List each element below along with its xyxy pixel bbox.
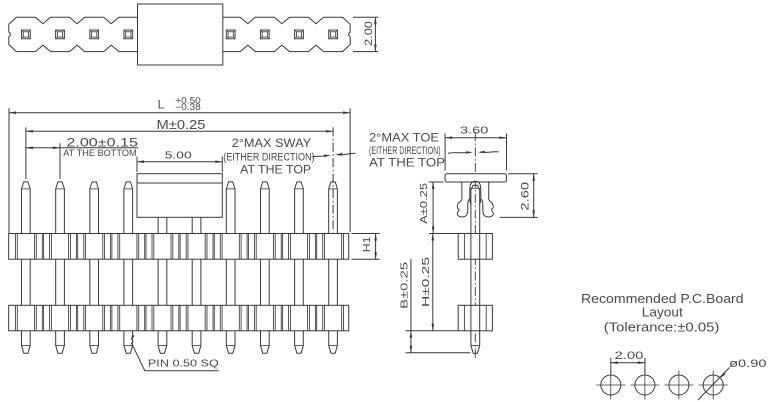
leader note ø0.90 (hole diameter) [698,358,767,400]
svg-text:2.00: 2.00 [363,21,375,46]
front view pin 3 upper post with chamfered tip [90,182,99,234]
top view pin 1 (0.50 sq cross-section) [22,30,31,39]
front view pin 8 upper post with chamfered tip [261,182,270,234]
svg-text:PIN 0.50 SQ: PIN 0.50 SQ [148,357,219,369]
side view lower insulator (edge-on) [458,305,492,331]
front view pin 1 bottom tail with chamfered tip [22,331,31,353]
leader note PIN 0.50 SQ [131,335,219,371]
front view dimension 5.00 (cap width) [137,150,222,173]
front view pick-up cap body [137,174,222,218]
front view dimension M±0.25 (pin 1 to pin 10 centers) [26,118,333,179]
side view center pin with chamfered top tip [471,185,480,233]
front view pin 10 bottom tail with chamfered tip [329,331,338,353]
front view upper insulator row [9,234,349,260]
side view centerline (dash-dot) [474,132,476,359]
svg-text:B±0.25: B±0.25 [399,262,411,309]
svg-text:L: L [158,98,165,112]
side view dimension A±0.25 (flange bottom to insulator) [418,182,444,234]
top view pin 8 (0.50 sq cross-section) [260,30,269,39]
side view dimension H±0.25 (insulator stack height) [420,234,458,331]
svg-text:AT THE BOTTOM: AT THE BOTTOM [63,148,136,159]
front view pin 8 bottom tail with chamfered tip [261,331,270,353]
side view dimension 2.60 (flange to clip bottom) [500,174,538,218]
side view note 2°MAX TOE (EITHER DIRECTION) AT THE TOP [369,132,445,169]
pcb hole 3 (ø0.90) with centerlines [664,371,693,400]
svg-text:Layout: Layout [642,305,683,320]
front view dimension L +0.50/-0.38 (overall length) [9,95,350,233]
front view pin 4 upper post with chamfered tip [124,182,133,234]
side view upper insulator (edge-on) [458,234,492,260]
top view: pin header strip outline (scalloped octagon cells) [9,17,350,51]
svg-text:AT THE TOP: AT THE TOP [369,158,445,170]
front view pin 9 bottom tail with chamfered tip [295,331,304,353]
svg-text:ø0.90: ø0.90 [729,358,766,370]
dimension 2.00 (strip width, top view, right side) [353,17,378,51]
top view pin 7 (0.50 sq cross-section) [226,30,235,39]
svg-text:AT THE TOP: AT THE TOP [240,164,311,176]
front view pin 6 stub below cap [192,217,201,233]
side view pin between insulators [471,259,480,305]
front view pin 5 bottom tail with chamfered tip [158,331,167,353]
side view flange (cap top, seen edge-on) [445,174,506,182]
svg-text:2°MAX TOE: 2°MAX TOE [369,132,439,144]
front view pins between insulator rows [22,259,338,305]
side view retaining clip lobes below flange [457,181,493,217]
side view pin bottom tail with chamfered tip [471,331,480,353]
toe limit arrows at side view centerline [448,151,499,154]
dimension H1 (upper insulator height) [352,234,380,260]
side view dimension 3.60 (flange width) [445,124,506,170]
top view body block (pick-up cap) [138,4,223,65]
side view dimension B±0.25 (standoff to pin tip) [399,259,471,353]
front view pin 2 bottom tail with chamfered tip [56,331,65,353]
svg-text:(Tolerance:±0.05): (Tolerance:±0.05) [604,320,720,335]
top view pin 10 (0.50 sq cross-section) [329,30,338,39]
front view pin 2 upper post with chamfered tip [56,182,65,234]
svg-text:2.60: 2.60 [520,182,532,211]
front view pin 10 upper post with chamfered tip [329,182,338,234]
front view pin 4 bottom tail with chamfered tip [124,331,133,353]
sway limit arrows at pin 10 top [312,153,356,158]
top view pin 9 (0.50 sq cross-section) [295,30,304,39]
front view pin 3 bottom tail with chamfered tip [90,331,99,353]
title: Recommended P.C.Board Layout (Tolerance:±0.05) [581,291,744,335]
svg-text:M±0.25: M±0.25 [157,118,206,132]
pcb hole 1 (ø0.90) with centerlines [596,371,625,400]
svg-text:(EITHER DIRECTION): (EITHER DIRECTION) [223,151,314,163]
front view pin 9 upper post with chamfered tip [295,182,304,234]
svg-text:−0.38: −0.38 [175,102,201,112]
front view dimension 2.00±0.15 AT THE BOTTOM (pitch) [26,137,138,179]
svg-text:3.60: 3.60 [460,124,489,136]
svg-text:5.00: 5.00 [165,150,192,162]
svg-text:2°MAX SWAY: 2°MAX SWAY [232,138,312,150]
front view pin 5 stub below cap [158,217,167,233]
front view centerline of pin 10 (dash-dot, sway reference) [332,127,334,232]
front view pin 7 bottom tail with chamfered tip [226,331,235,353]
top view pin 2 (0.50 sq cross-section) [56,30,65,39]
svg-text:(EITHER DIRECTION): (EITHER DIRECTION) [369,145,441,157]
note 2°MAX SWAY (EITHER DIRECTION) AT THE TOP [223,138,314,176]
svg-text:H±0.25: H±0.25 [420,257,432,307]
top view pin 3 (0.50 sq cross-section) [90,30,99,39]
front view lower insulator row [9,305,349,331]
svg-text:A±0.25: A±0.25 [418,183,430,224]
front view pin 7 upper post with chamfered tip [226,182,235,234]
front view pin 6 bottom tail with chamfered tip [192,331,201,353]
svg-text:2.00: 2.00 [615,350,644,362]
svg-text:H1: H1 [362,236,373,252]
front view pin 1 upper post with chamfered tip [22,182,31,234]
pcb layout dimension 2.00 (hole pitch) [611,350,645,374]
pcb hole 4 (ø0.90) with centerlines [699,371,728,400]
top view pin 4 (0.50 sq cross-section) [124,30,133,39]
pcb hole 2 (ø0.90) with centerlines [630,371,659,400]
